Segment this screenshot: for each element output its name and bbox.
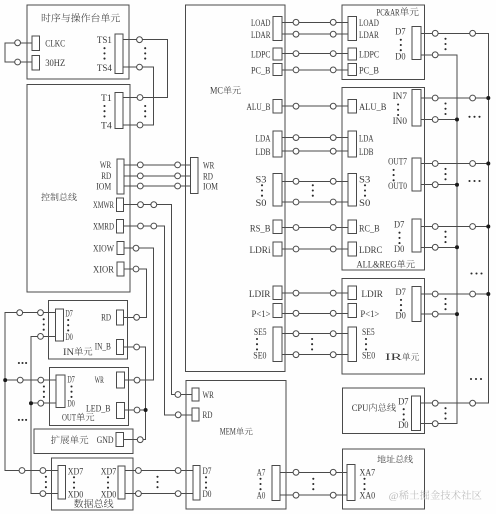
terminal XD7 left b [40,468,46,474]
title MC单元 [210,86,241,97]
terminal IN_B [134,344,140,350]
svg-text:LDPC: LDPC [251,50,271,60]
svg-text:D0: D0 [396,312,407,322]
wire LED_B stub [124,409,145,411]
terminal PC_B a [293,67,299,73]
dots TS labels [103,47,105,59]
port XMRD [117,219,124,233]
svg-text:IN_B: IN_B [95,342,111,352]
terminal WR right [175,162,181,168]
dots IN D terminals [43,318,45,331]
terminal S3 b [330,178,336,184]
terminal IN D7 a [17,310,23,316]
svg-text:D7: D7 [395,28,406,38]
dots OUT7-OUT0 terminals (ALU&REG outputs) [444,168,446,181]
terminal ALU_B b [330,103,336,109]
svg-text:RD: RD [101,314,111,324]
port RD (MEM) [192,408,199,421]
wire TS1 to T1 [123,40,167,98]
svg-text:WR: WR [100,161,112,171]
port XD7-XD0 (data bus right) [118,466,125,499]
terminal MEM RD [175,412,181,418]
dots A-XA terminals [312,478,314,491]
wire D0 bus rail (right) [419,55,457,424]
svg-text:WR: WR [203,391,215,401]
svg-text:D0: D0 [203,490,212,500]
dots D7-D0 labels (PC&AR) [400,39,402,52]
wire A7 to XA7 [280,471,347,473]
wire D7 bus rail (right) [419,33,488,403]
dots D7-D0 terminals (PC&AR) [444,38,446,51]
port P<1> (MC side) [273,304,282,318]
dots SE terminals [311,338,313,351]
terminal WR (OUT) [134,377,140,383]
unit box: 时序与操作台单元 (timing & console unit) [27,5,129,79]
svg-text:A0: A0 [257,492,266,502]
wire LDAR [282,33,348,35]
wire PC_B [282,69,348,71]
svg-text:RD: RD [101,172,111,182]
terminal T4 [137,122,143,128]
svg-text:T4: T4 [101,121,112,131]
port WR/RD/IOM (MC side) [190,158,198,194]
terminal IN0 (ALU&REG inputs) [432,117,438,123]
svg-text:S0: S0 [359,199,371,209]
dots T labels [103,105,105,118]
wire LDPC [282,53,348,55]
junction OUT0 (ALU&REG outputs) on D0 rail [455,183,459,187]
terminal IN D7 b [38,310,44,316]
terminal D0 (ALU&REG) [432,244,438,250]
terminal P<1> b [330,310,336,316]
watermark @稀土掘金技术社区 [389,490,482,502]
terminal SE5 a [293,331,299,337]
terminal D7 a (IR) [432,291,438,297]
port XIOW [117,241,124,254]
terminal S0 b [330,199,336,205]
terminal WR left [137,162,143,168]
wire LDB [282,150,348,152]
port SE5-SE0 (IR side) [348,327,357,361]
terminal XD0 left [40,491,46,497]
svg-text:XD7: XD7 [68,467,84,477]
wire TS4 to T4 [123,67,154,125]
svg-text:IR: IR [385,353,403,363]
svg-text:LDB: LDB [359,148,374,158]
svg-text:D7: D7 [67,375,75,385]
ellipsis below ALU D0 [470,272,482,274]
terminal D7 b (PC&AR) [470,30,476,36]
port RS_B (ALU side) [348,220,357,234]
title PC&AR单元 [377,7,419,18]
terminal OUT7 b (ALU&REG outputs) [470,161,476,167]
port IN7-IN0 (ALU&REG inputs) [412,90,421,126]
terminal LDAR b [330,31,336,37]
terminal SE5 b [330,331,336,337]
unit box: MEM单元 [186,381,286,509]
svg-text:ALU_B: ALU_B [359,103,386,113]
svg-text:XIOR: XIOR [93,265,115,275]
port SE5-SE0 (MC side) [273,327,282,361]
dots D7-D0 labels (ALU&REG) [398,232,400,245]
svg-text:A7: A7 [257,469,266,479]
terminal XIOW [133,245,139,251]
terminal XD0 right b [175,491,181,497]
svg-text:LDRi: LDRi [250,246,271,256]
terminal RD (IN) [134,314,140,320]
wire OUT0 (ALU&REG outputs) [421,184,457,186]
svg-text:PC&AR: PC&AR [377,8,400,18]
port OUT7-OUT0 (ALU&REG outputs) [412,158,421,191]
svg-text:P<1>: P<1> [360,310,379,320]
wire IOM [124,185,190,187]
svg-text:LDPC: LDPC [359,50,379,60]
terminal TS1 [137,37,143,43]
port LDIR (MC side) [273,286,282,300]
svg-text:XMRD: XMRD [93,223,114,233]
port LDPC (PC&AR side) [348,48,357,60]
svg-text:MEM: MEM [220,428,236,438]
terminal D0 (PC&AR) [432,52,438,58]
unit box: IN单元 [49,301,128,360]
ellipsis left rails upper [18,362,27,364]
port D7-D0 (ALU&REG) [412,219,421,252]
dots S3-S0 labels ALU side [364,184,366,197]
svg-text:PC_B: PC_B [251,67,271,77]
junction OUT7 (ALU&REG outputs) on D7 rail [486,162,490,166]
port PC_B (MC side) [273,63,282,75]
port RD (IN unit) [116,310,123,325]
port LDRi (MC side) [273,242,282,256]
dots D7-D0 terminals (ALU&REG) [444,231,446,244]
terminal D7 b (CPU bus) [470,400,476,406]
svg-text:WR: WR [203,161,215,171]
terminal LED_B [134,407,140,413]
unit box: 地址总线 (address bus) [343,449,425,509]
port LOAD/LDAR (MC side) [273,16,282,40]
terminal S0 a [293,199,299,205]
svg-text:D7: D7 [203,467,212,477]
svg-text:WR: WR [95,376,104,386]
wire LOAD [282,21,348,23]
svg-text:LDAR: LDAR [359,31,379,41]
junction D0 (ALU&REG) on D0 rail [455,245,459,249]
svg-text:IOM: IOM [203,183,218,193]
dots D7-D0 labels (MEM) [205,476,207,489]
wire OUT D7 tap [5,379,56,381]
ellipsis below IR D0 [470,378,482,380]
port S3-S0 (MC side) [273,174,282,207]
terminal RD left [137,173,143,179]
dots TS terminals [144,47,146,59]
svg-text:PC_B: PC_B [359,67,379,77]
port XIOR [117,262,124,276]
port 30HZ [32,55,40,70]
terminal D0 (IR) [432,311,438,317]
port A7-A0 (MEM) [272,465,280,500]
terminal P<1> a [293,310,299,316]
port IN_B (IN unit) [116,340,123,355]
terminal GND [137,437,143,443]
svg-text:RS_B: RS_B [250,224,271,234]
port D7-D0 (IR) [412,286,421,321]
dots D7-D0 labels (CPU bus) [403,408,405,421]
port WR (MEM) [192,388,199,401]
wire IN_B to GND net [123,347,145,440]
svg-text:P<1>: P<1> [252,310,271,320]
port D7-D0 (IN unit) [55,309,63,341]
dots XD-MEM terminals [156,476,158,489]
dots OUT7-OUT0 labels (ALU&REG outputs) [393,169,395,182]
dots D7-D0 labels (OUT) [70,385,72,398]
svg-text:LDB: LDB [256,148,271,158]
ellipsis left rails lower [18,419,27,421]
junction IN0 (ALU&REG inputs) on D0 rail [455,118,459,122]
svg-text:XIOW: XIOW [93,245,114,255]
dots XA labels [363,478,365,491]
terminal IOM left [137,183,143,189]
port GND [116,433,124,447]
dots S3-S0 terminals [312,184,314,197]
svg-text:SE0: SE0 [253,352,266,362]
dots D7-D0 labels (IR) [400,299,402,311]
terminal XD7 right a [136,468,142,474]
port ALU_B (ALU side) [348,99,357,113]
dots D7-D0 terminals (CPU bus) [444,407,446,420]
terminal LDIR a [293,290,299,296]
svg-text:IN7: IN7 [393,92,408,102]
terminal LDA a [293,135,299,141]
title IN单元 [63,347,92,358]
terminal IN7 a (ALU&REG inputs) [432,95,438,101]
wire P<1> [282,312,348,314]
dots OUT D terminals [43,385,45,398]
terminal on 30HZ wire [15,59,21,65]
svg-text:XA7: XA7 [360,469,376,479]
svg-text:LDIR: LDIR [249,290,271,300]
port XMWR [117,198,124,212]
wire SE0 [282,354,348,356]
terminal OUT0 (ALU&REG outputs) [432,182,438,188]
terminal XIOR [133,266,139,272]
svg-text:D0: D0 [398,421,409,431]
svg-text:LOAD: LOAD [251,19,271,29]
port LOAD/LDAR (PC&AR side) [348,16,357,40]
dots IN7-IN0 terminals (ALU&REG inputs) [444,102,446,115]
junction IN7 (ALU&REG inputs) on D7 rail [486,96,490,100]
dots D7-D0 labels (IN) [67,319,69,332]
unit box: 控制总线 (control bus) [27,85,130,293]
terminal RD right [175,173,181,179]
wire IN0 (ALU&REG inputs) [421,119,457,121]
terminal A7 a [293,469,299,475]
wire D0 (ALU&REG) [421,246,457,248]
wire RD [124,175,190,177]
port S3-S0 (ALU side) [348,174,357,207]
terminal T1 [137,95,143,101]
svg-text:LDIR: LDIR [361,290,383,300]
svg-text:LDRC: LDRC [359,246,382,256]
unit box: OUT单元 [49,367,128,425]
unit box: ALU&REG单元 [342,87,424,270]
title 扩展单元 [51,435,88,444]
dots XD7-XD0 labels (right) [107,476,109,489]
wire left D7 rail [5,313,58,471]
port LDRi (ALU side) [348,242,357,256]
junction OUT D7 on left D7 rail [3,378,7,382]
wire D0 (IR) [421,313,457,315]
title 地址总线 [377,455,412,463]
title 数据总线 [74,499,113,508]
svg-text:OUT: OUT [62,414,76,424]
svg-text:D0: D0 [394,245,405,255]
dots XD7-XD0 labels (left) [73,476,75,489]
dots T terminals [144,105,146,118]
svg-text:SE5: SE5 [254,328,267,338]
ellipsis right of IN0 [468,116,480,118]
wire LDIR [282,292,348,294]
svg-text:RD: RD [203,172,213,182]
dots XD left terminals [45,476,47,489]
title 时序与操作台单元 [42,13,120,22]
terminal D7 b (ALU&REG) [470,224,476,230]
port XD7-XD0 (data bus left) [58,465,66,499]
svg-text:IOM: IOM [96,182,111,192]
port LDA/LDB (ALU side) [348,131,357,157]
svg-text:D0: D0 [65,333,73,343]
terminal OUT D0 [38,400,44,406]
wire S0 [282,201,348,203]
unit box: CPU内总线 (CPU internal bus) [343,388,425,434]
svg-text:LDAR: LDAR [251,31,271,41]
terminal LDRi b [330,246,336,252]
dots A7-A0 labels (MEM) [259,478,261,491]
title MEM单元 [220,427,253,437]
terminal XMRD b [151,223,157,229]
title 控制总线 [41,193,77,201]
terminal XD7 right b [175,468,181,474]
port RS_B (MC side) [273,220,282,234]
terminal RS_B a [293,225,299,231]
port LDA/LDB (MC side) [273,131,282,157]
wire CLKC-30HZ loop [5,43,32,62]
port LED_B (OUT unit) [116,402,124,418]
unit box: 数据总线 (data bus) [52,458,133,510]
port ALU_B (MC side) [273,99,282,113]
svg-text:ALL&REG: ALL&REG [357,261,397,271]
junction LED_B on IN_B/GND net [144,408,148,412]
wire XD7 to MEM D7 [125,470,193,472]
wire D7 (ALU&REG) [421,226,488,228]
terminal OUT7 a (ALU&REG outputs) [432,161,438,167]
terminal SE0 b [330,352,336,358]
dots D7-D0 terminals (IR) [444,298,446,310]
svg-text:GND: GND [97,436,114,446]
svg-text:XD7: XD7 [101,467,117,477]
svg-text:SE5: SE5 [362,328,375,338]
svg-text:D7: D7 [394,221,405,231]
svg-text:IN0: IN0 [393,117,408,127]
terminal D7 a (CPU bus) [432,400,438,406]
terminal OUT D7 a [17,377,23,383]
port T1-T4 [115,93,123,129]
port XA7-XA0 (addr bus) [347,465,355,501]
ellipsis right of OUT0 [468,180,480,182]
terminal A7 b [330,469,336,475]
svg-text:IN: IN [63,348,74,358]
svg-text:RD: RD [203,411,213,421]
port D7-D0 (CPU bus) [412,396,421,431]
wire XD0 to MEM D0 [125,493,193,495]
wire OUT7 (ALU&REG outputs) [421,163,488,165]
terminal TS4 [137,64,143,70]
svg-text:LDA: LDA [256,134,271,144]
wire XIOW to OUT WR [124,248,154,380]
wire LDA [282,137,348,139]
svg-text:S3: S3 [359,176,371,186]
terminal LDIR b [330,290,336,296]
dots IN7-IN0 labels (ALU&REG inputs) [397,103,399,116]
wire XMWR to MEM WR [124,205,193,395]
terminal LDPC a [293,51,299,57]
port D7-D0 (MEM) [193,465,200,500]
terminal XD7 left a [19,468,25,474]
terminal XMWR b [151,202,157,208]
unit box: PC&AR单元 [342,5,424,79]
svg-text:LOAD: LOAD [359,19,379,29]
terminal SE0 a [293,352,299,358]
svg-text:ALU_B: ALU_B [247,103,271,113]
wire OUT D0 tap [31,402,56,404]
wire D7 (IR) [421,293,488,295]
terminal MEM WR [175,392,181,398]
title CPU内总线 [352,403,396,414]
port WR (OUT unit) [116,372,124,388]
svg-text:LED_B: LED_B [86,405,111,415]
terminal IOM right [175,183,181,189]
svg-text:RC_B: RC_B [359,224,380,234]
terminal D7 a (PC&AR) [432,30,438,36]
svg-text:XMWR: XMWR [93,201,114,211]
svg-text:@: @ [389,492,399,502]
terminal XMWR a [138,202,144,208]
junction D7 (ALU&REG) on D7 rail [486,225,490,229]
wire ALU_B [282,105,348,107]
svg-text:OUT0: OUT0 [388,182,407,192]
port CLKC [32,36,40,51]
terminal D7 b (IR) [470,291,476,297]
junction OUT D0 on left D0 rail [29,401,33,405]
wire S3 [282,180,348,182]
svg-text:TS1: TS1 [97,36,112,46]
terminal LDPC b [330,51,336,57]
terminal XMRD a [138,223,144,229]
svg-text:MC: MC [210,87,223,97]
wire XMRD to MEM RD [124,226,193,415]
terminal A0 a [293,492,299,498]
terminal LDAR a [293,31,299,37]
svg-text:CLKC: CLKC [45,39,65,49]
port LDPC (MC side) [273,48,282,60]
terminal LDRi a [293,246,299,252]
svg-text:D7: D7 [398,397,409,407]
port TS1-TS4 [115,34,123,74]
svg-text:XD0: XD0 [101,490,117,500]
svg-text:D7: D7 [65,309,73,319]
title ALU&REG单元 [357,260,415,271]
wire WR [124,164,190,166]
svg-text:S0: S0 [256,199,267,209]
